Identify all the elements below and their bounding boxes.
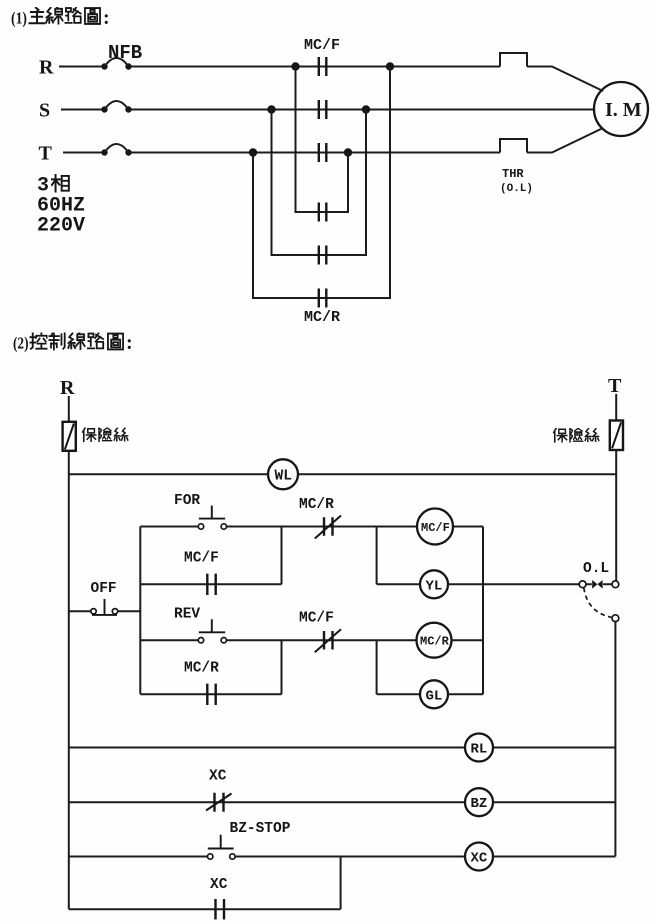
wire T line <box>63 128 603 153</box>
svg-text:BZ-STOP: BZ-STOP <box>230 821 291 837</box>
relay coil XC <box>465 843 615 871</box>
lamp WL <box>268 459 298 489</box>
svg-text:BZ: BZ <box>471 796 488 812</box>
svg-text:MC/F: MC/F <box>304 37 340 54</box>
svg-text:R: R <box>39 57 54 79</box>
svg-text:MC/R: MC/R <box>184 661 219 677</box>
label 3相 <box>37 175 69 198</box>
coil MC/R <box>417 623 484 658</box>
svg-text:MC/R: MC/R <box>420 635 450 649</box>
svg-text:MC/F: MC/F <box>184 551 219 567</box>
svg-text:T: T <box>39 143 53 165</box>
label 保險絲 left <box>83 428 128 442</box>
svg-text:MC/F: MC/F <box>421 521 450 535</box>
svg-text::: : <box>126 332 133 354</box>
wire MC/R row3 <box>253 67 390 299</box>
motor I.M <box>594 82 648 136</box>
title (1) 主線路圖: <box>11 7 110 29</box>
lamp RL <box>69 734 616 762</box>
contact MC/R holding <box>140 684 281 705</box>
heater THR element on T <box>500 139 527 153</box>
contact MC/R pole 2 <box>319 246 327 265</box>
wire top bus <box>69 473 616 475</box>
buzzer BZ <box>465 788 615 816</box>
breaker NFB pole S <box>101 101 131 113</box>
contact MC/F pole 2 <box>319 100 327 119</box>
wire R line <box>59 67 603 92</box>
title (2) 控制線路圖: <box>13 332 133 354</box>
wire left branch vertical <box>139 527 141 695</box>
wire MC/R row2 <box>272 110 367 256</box>
svg-text:(2): (2) <box>13 334 29 353</box>
svg-text::: : <box>103 7 110 29</box>
svg-text:R: R <box>60 377 75 399</box>
contact XC holding bottom row <box>69 899 341 920</box>
wire lamp branch vertical 2 <box>376 640 378 694</box>
svg-text:FOR: FOR <box>174 493 200 509</box>
pushbutton FOR <box>140 506 281 530</box>
contact XC NC on BZ row <box>69 793 465 812</box>
wire right rail lower <box>614 622 616 857</box>
svg-text:RL: RL <box>471 742 488 758</box>
label THR (O.L) <box>500 167 533 195</box>
node S-right <box>362 105 370 113</box>
node T-left <box>249 148 257 156</box>
lamp GL <box>377 680 483 708</box>
contact MC/F pole 3 <box>319 143 327 162</box>
contact MC/F pole 1 <box>319 57 327 76</box>
heater THR element on R <box>500 53 527 67</box>
svg-text:I. M: I. M <box>605 99 642 121</box>
svg-text:YL: YL <box>426 578 443 594</box>
svg-text:220V: 220V <box>37 215 85 238</box>
svg-text:MC/R: MC/R <box>299 497 334 513</box>
node R-right <box>386 62 394 70</box>
overload contact O.L <box>579 580 619 622</box>
svg-text:THR: THR <box>502 167 524 181</box>
wire R stub <box>68 396 70 422</box>
svg-text:MC/R: MC/R <box>304 309 340 326</box>
svg-text:O.L: O.L <box>583 561 609 577</box>
wire bottom row up vertical <box>340 857 342 910</box>
breaker NFB pole R <box>101 58 131 70</box>
wire T stub <box>615 394 617 421</box>
svg-text:WL: WL <box>275 469 292 485</box>
svg-text:XC: XC <box>471 851 488 867</box>
wire YL row to O.L <box>483 583 579 585</box>
svg-text:T: T <box>608 375 622 397</box>
wire lamp branch vertical 1 <box>376 527 378 585</box>
node T-right <box>344 148 352 156</box>
label 保險絲 right <box>554 428 599 442</box>
contact MC/F NC on REV row <box>282 629 417 652</box>
svg-text:(1): (1) <box>11 9 27 28</box>
pushbutton REV <box>140 619 281 643</box>
wire S line <box>61 109 594 111</box>
svg-text:MC/F: MC/F <box>299 611 334 627</box>
fuse left 保險絲 <box>63 422 76 451</box>
svg-text:XC: XC <box>209 769 227 785</box>
svg-text:NFB: NFB <box>108 42 142 64</box>
pushbutton OFF <box>69 599 141 615</box>
svg-text:OFF: OFF <box>91 581 117 597</box>
svg-text:REV: REV <box>174 607 200 623</box>
wire MC/R row1 <box>272 67 349 213</box>
contact MC/R NC on FOR row <box>282 516 418 539</box>
pushbutton BZ-STOP <box>69 835 465 859</box>
contact MC/F holding <box>140 574 281 595</box>
wire right group vertical <box>482 527 484 695</box>
svg-text:XC: XC <box>210 877 228 893</box>
wire branch vertical REV/MCR <box>281 640 283 694</box>
contact MC/R pole 1 <box>319 203 327 222</box>
svg-text:S: S <box>39 100 50 122</box>
contact MC/R pole 3 <box>319 289 327 308</box>
coil MC/F <box>417 509 483 545</box>
node S-left <box>267 105 275 113</box>
lamp YL <box>377 570 483 598</box>
node R-left <box>291 62 299 70</box>
wire right rail upper <box>615 450 617 581</box>
fuse right 保險絲 <box>610 421 623 451</box>
svg-text:GL: GL <box>426 688 443 704</box>
svg-text:(O.L): (O.L) <box>500 183 533 195</box>
breaker NFB pole T <box>101 144 131 156</box>
wire branch vertical FOR/MCF <box>281 527 283 585</box>
wire left rail <box>68 451 70 909</box>
